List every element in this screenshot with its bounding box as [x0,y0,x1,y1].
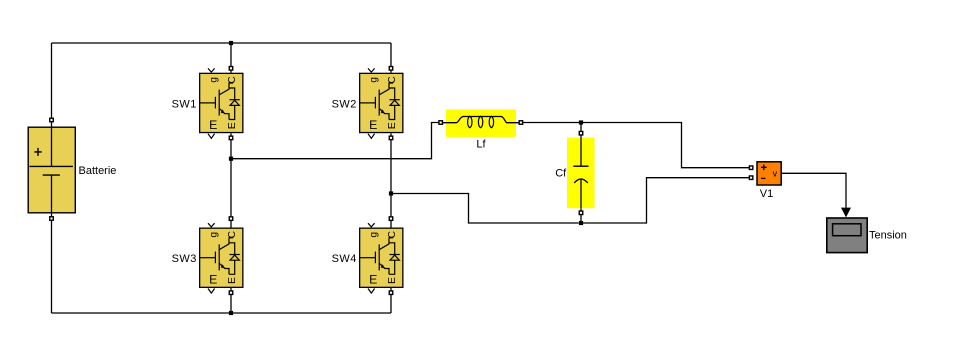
wire: V1 output to scope [782,173,846,208]
svg-text:SW2: SW2 [332,98,357,110]
wire: SW4 E drop [390,295,392,313]
wire: battery bottom stub [51,214,53,217]
SW1 E port [229,136,233,140]
transistor SW3 [200,223,243,293]
svg-text:SW3: SW3 [172,253,197,265]
wire: battery bottom drop [51,221,53,313]
battery bottom port [50,217,54,221]
svg-text:Lf: Lf [476,139,486,151]
wire: SW2-SW4 link [390,140,392,216]
node: Cf top junction [579,120,583,124]
wire: bottom bus [52,312,392,314]
wire: battery top stub [51,122,53,126]
wire: SW1-SW3 link [230,140,232,216]
SW3 E port [229,291,233,295]
battery Batterie [28,127,75,213]
arrow into scope [841,208,851,218]
wire: SW2 collector drop [390,43,392,66]
wire: left midpoint to Lf [231,123,438,159]
wire: SW1 E stub [230,133,232,135]
node: left midpoint junction [229,157,233,161]
node: Cf bottom junction [579,221,583,225]
voltage measurement V1 [757,162,781,185]
SW4 E port [389,291,393,295]
node: bottom bus junction [229,311,233,315]
wire: Lf output to V1 plus [523,123,749,168]
wire: SW1 collector drop [230,43,232,66]
scope Tension [827,218,867,253]
svg-text:Batterie: Batterie [79,165,117,177]
battery top port [50,118,54,122]
SW2 C port [389,67,393,71]
svg-text:Tension: Tension [869,229,907,241]
svg-text:SW1: SW1 [172,98,197,110]
wire: Cf top stub [580,123,582,131]
SW4 C port [389,217,393,221]
wire: SW3 C stub [230,221,232,228]
wire: SW1 C stub [230,71,232,73]
svg-text:v: v [773,169,778,179]
V1 minus port [749,176,753,180]
wire: SW3 E stub [230,288,232,290]
wire: SW4 C stub [390,221,392,228]
wire: Cf bottom stub [580,215,582,223]
wire: right midpoint to bottom return [391,194,579,224]
node: right midpoint junction [389,191,393,195]
wire: Cf bottom to block [580,208,582,210]
svg-text:SW4: SW4 [332,253,357,265]
svg-text:Cf: Cf [555,167,567,179]
wire: SW2 C stub [390,71,392,73]
transistor SW1 [200,68,243,138]
Cf top port [579,131,583,135]
transistor SW2 [360,68,403,138]
wire: battery top drop [51,43,53,118]
capacitor Cf [567,138,595,209]
Lf right port [519,121,523,125]
wire: SW2 E stub [390,133,392,135]
inductor Lf [443,109,519,136]
node: top bus junction [229,41,233,45]
transistor SW4 [360,223,403,293]
wire: Cf top to block [580,136,582,138]
wire: SW4 E stub [390,288,392,290]
SW3 C port [229,217,233,221]
SW2 E port [389,136,393,140]
Lf left port [439,121,443,125]
svg-text:V1: V1 [760,188,773,200]
wire: SW3 E drop [230,295,232,313]
wire: bottom return to V1 minus [581,178,749,223]
wire: top bus [52,42,392,44]
Cf bottom port [579,211,583,215]
V1 plus port [749,166,753,170]
SW1 C port [229,67,233,71]
